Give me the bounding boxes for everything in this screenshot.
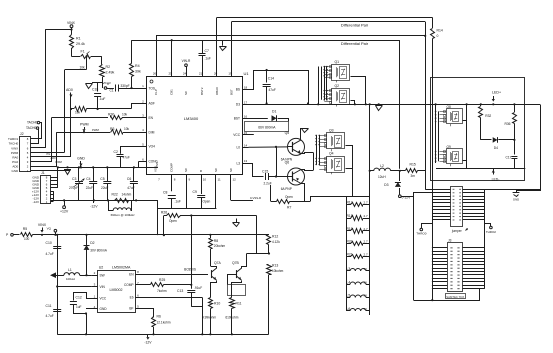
svg-text:GND: GND — [77, 157, 85, 161]
svg-text:Q6: Q6 — [285, 161, 290, 165]
svg-text:47uF: 47uF — [269, 88, 276, 92]
svg-text:2.7: 2.7 — [364, 214, 369, 218]
svg-text:J2: J2 — [20, 132, 24, 136]
svg-text:C18: C18 — [92, 88, 98, 92]
svg-text:VSS: VSS — [154, 166, 158, 172]
svg-text:C11: C11 — [46, 304, 52, 308]
svg-text:.91uF: .91uF — [194, 286, 202, 290]
svg-text:BST: BST — [230, 89, 234, 95]
svg-text:C9: C9 — [193, 190, 197, 194]
svg-text:R5: R5 — [23, 227, 27, 231]
svg-text:GND: GND — [513, 198, 519, 202]
svg-text:-12V: -12V — [90, 204, 98, 208]
svg-text:4.7uF: 4.7uF — [46, 314, 54, 318]
svg-text:Q2: Q2 — [335, 84, 340, 88]
svg-text:1uF: 1uF — [76, 305, 82, 309]
svg-text:2.7: 2.7 — [364, 239, 369, 243]
svg-text:619kohm: 619kohm — [225, 315, 238, 319]
svg-text:COMP: COMP — [169, 163, 173, 172]
svg-text:18: 18 — [244, 85, 248, 89]
svg-text:R13: R13 — [272, 264, 278, 268]
svg-text:30V 800mA: 30V 800mA — [90, 249, 108, 253]
svg-text:11: 11 — [218, 178, 221, 182]
svg-text:PG0: PG0 — [12, 160, 18, 164]
svg-text:19: 19 — [228, 72, 232, 76]
svg-text:VINX: VINX — [11, 146, 18, 150]
svg-text:Q5: Q5 — [285, 131, 290, 135]
svg-text:PWM: PWM — [92, 128, 100, 132]
svg-text:39k: 39k — [135, 70, 141, 74]
svg-text:EN: EN — [149, 116, 154, 120]
svg-text:D4: D4 — [494, 146, 498, 150]
svg-text:12uH: 12uH — [378, 175, 386, 179]
svg-text:C10: C10 — [46, 241, 52, 245]
svg-text:jumper: jumper — [451, 229, 463, 233]
svg-text:EN: EN — [129, 272, 134, 276]
svg-text:14ohm: 14ohm — [122, 192, 132, 196]
svg-text:12.1kohm: 12.1kohm — [157, 321, 171, 325]
svg-text:10k: 10k — [75, 111, 81, 115]
svg-text:LED+: LED+ — [492, 91, 501, 95]
svg-text:Differential Pair: Differential Pair — [341, 41, 369, 46]
svg-text:2.7: 2.7 — [364, 252, 369, 256]
svg-text:AD0: AD0 — [51, 156, 57, 160]
svg-text:THRO2: THRO2 — [486, 230, 496, 234]
svg-text:AD0: AD0 — [66, 88, 73, 92]
svg-text:47uF: 47uF — [123, 156, 130, 160]
svg-text:LM3400: LM3400 — [184, 116, 199, 121]
svg-text:D1: D1 — [272, 110, 276, 114]
svg-text:Open: Open — [169, 219, 177, 223]
svg-text:16: 16 — [244, 114, 248, 118]
svg-text:BST2: BST2 — [200, 87, 204, 95]
svg-text:F1: F1 — [81, 50, 85, 54]
svg-text:25: 25 — [169, 72, 173, 76]
svg-text:CLP: CLP — [154, 89, 158, 95]
svg-text:22uF: 22uF — [86, 186, 93, 190]
svg-text:C17: C17 — [505, 156, 511, 160]
svg-text:26: 26 — [153, 72, 157, 76]
svg-text:2.2uF: 2.2uF — [264, 182, 272, 186]
svg-text:BF: BF — [129, 307, 133, 311]
svg-text:Q3: Q3 — [329, 129, 334, 133]
svg-text:VIN: VIN — [100, 285, 106, 289]
svg-text:20kohm: 20kohm — [214, 244, 226, 248]
svg-text:AD0: AD0 — [12, 165, 18, 169]
svg-text:L2: L2 — [380, 164, 384, 168]
svg-text:U2: U2 — [99, 265, 104, 269]
svg-text:10kohm: 10kohm — [272, 269, 284, 273]
svg-text:10k: 10k — [122, 113, 128, 117]
svg-text:330pF: 330pF — [121, 84, 130, 88]
svg-text:PWM: PWM — [80, 123, 89, 127]
svg-text:7kohm: 7kohm — [157, 289, 167, 293]
svg-text:DIM: DIM — [149, 130, 155, 134]
svg-text:J1: J1 — [41, 171, 45, 175]
svg-text:.1uF: .1uF — [175, 199, 181, 203]
svg-text:D2: D2 — [90, 241, 94, 245]
svg-text:B: B — [199, 170, 203, 172]
svg-text:0-12V: 0-12V — [402, 195, 412, 199]
svg-text:L3: L3 — [236, 161, 240, 165]
svg-text:0-VSS-R: 0-VSS-R — [250, 196, 261, 200]
svg-text:10: 10 — [203, 178, 207, 182]
svg-text:SW: SW — [100, 274, 105, 278]
svg-text:10k: 10k — [124, 127, 130, 131]
svg-text:RA0: RA0 — [12, 155, 18, 159]
svg-text:R36: R36 — [504, 122, 510, 126]
svg-text:D3: D3 — [236, 103, 240, 107]
svg-text:4.99kohm: 4.99kohm — [202, 315, 216, 319]
svg-text:2.7: 2.7 — [364, 200, 369, 204]
svg-text:LM5002: LM5002 — [110, 288, 123, 292]
svg-text:21: 21 — [199, 72, 203, 76]
svg-text:2.49k: 2.49k — [106, 71, 115, 75]
svg-text:PWM: PWM — [11, 151, 19, 155]
svg-text:C1: C1 — [110, 89, 114, 93]
svg-text:C3: C3 — [72, 177, 76, 181]
svg-text:C6: C6 — [127, 177, 131, 181]
svg-text:R14: R14 — [437, 29, 443, 33]
svg-text:C13: C13 — [177, 289, 183, 293]
svg-text:VCC: VCC — [100, 297, 107, 301]
svg-text:D3: D3 — [384, 183, 388, 187]
svg-text:J3: J3 — [448, 239, 452, 243]
svg-text:R1: R1 — [76, 37, 81, 41]
svg-text:DBA0: DBA0 — [215, 87, 219, 95]
svg-text:COMP: COMP — [124, 283, 134, 287]
svg-text:BC850S: BC850S — [184, 268, 196, 272]
svg-text:THRO0: THRO0 — [416, 231, 426, 235]
svg-text:CB1: CB1 — [170, 89, 174, 95]
svg-text:Q4: Q4 — [329, 152, 334, 156]
svg-text:14: 14 — [244, 143, 248, 147]
svg-text:BS: BS — [236, 88, 240, 92]
svg-text:ADF: ADF — [149, 102, 155, 106]
svg-text:VCC: VCC — [233, 133, 240, 137]
svg-text:3m: 3m — [411, 174, 416, 178]
svg-text:24: 24 — [183, 72, 187, 76]
svg-text:VINX: VINX — [38, 223, 47, 227]
svg-text:C8: C8 — [163, 191, 167, 195]
svg-text:R32: R32 — [485, 114, 491, 118]
svg-text:VO4: VO4 — [149, 145, 156, 149]
svg-text:100: 100 — [24, 237, 30, 241]
svg-text:R6: R6 — [157, 315, 161, 319]
svg-text:TACH0: TACH0 — [9, 142, 19, 146]
svg-text:R2: R2 — [106, 65, 111, 69]
svg-text:C5: C5 — [100, 177, 104, 181]
svg-text:10k: 10k — [80, 66, 86, 70]
svg-text:20: 20 — [214, 72, 218, 76]
svg-text:270pF: 270pF — [69, 186, 78, 190]
svg-text:12: 12 — [233, 178, 237, 182]
svg-text:L0: L0 — [236, 146, 240, 150]
svg-text:.1uF: .1uF — [205, 57, 211, 61]
svg-text:100uH: 100uH — [66, 277, 75, 281]
svg-text:+12V: +12V — [60, 210, 69, 214]
svg-text:17: 17 — [244, 100, 248, 104]
svg-text:THRO1: THRO1 — [8, 137, 18, 141]
svg-text:TACH0: TACH0 — [27, 121, 37, 125]
svg-text:TACH0: TACH0 — [26, 126, 36, 130]
svg-text:R4: R4 — [135, 64, 140, 68]
svg-text:R26: R26 — [161, 211, 167, 215]
svg-text:66V 800mA: 66V 800mA — [258, 125, 276, 129]
svg-text:VQ: VQ — [47, 227, 52, 231]
svg-text:-12V: -12V — [144, 341, 152, 345]
svg-text:LM5002MA: LM5002MA — [112, 265, 131, 269]
svg-text:C15: C15 — [262, 170, 268, 174]
svg-text:Q7B: Q7B — [232, 261, 240, 265]
svg-text:C4: C4 — [86, 177, 90, 181]
svg-text:BST: BST — [234, 117, 240, 121]
svg-text:R10: R10 — [214, 302, 220, 306]
svg-text:U1: U1 — [244, 71, 250, 76]
svg-text:GND: GND — [12, 169, 20, 173]
svg-text:4.7uF: 4.7uF — [46, 252, 54, 256]
svg-text:4.12k: 4.12k — [272, 240, 280, 244]
svg-text:Open: Open — [203, 199, 211, 203]
svg-text:R8: R8 — [214, 239, 218, 243]
svg-text:29.4k: 29.4k — [76, 42, 85, 46]
svg-text:L1: L1 — [68, 268, 72, 272]
svg-text:0: 0 — [437, 34, 439, 38]
svg-text:SAMTEC TDX: SAMTEC TDX — [446, 295, 464, 299]
svg-text:6A PNP: 6A PNP — [281, 187, 292, 191]
svg-text:R7: R7 — [287, 206, 291, 210]
svg-text:R11: R11 — [236, 302, 242, 306]
svg-text:VIN-R: VIN-R — [182, 59, 191, 63]
svg-text:PWM: PWM — [56, 160, 62, 164]
svg-text:PG: PG — [47, 152, 51, 156]
svg-text:C2: C2 — [114, 150, 118, 154]
svg-text:R15: R15 — [410, 162, 416, 166]
svg-text:R12: R12 — [272, 235, 278, 239]
svg-text:C14: C14 — [268, 77, 274, 81]
svg-text:C12: C12 — [76, 296, 82, 300]
svg-text:Eb: Eb — [130, 296, 134, 300]
svg-text:R22: R22 — [112, 192, 118, 196]
svg-text:690um @ 100kHz: 690um @ 100kHz — [111, 213, 136, 217]
svg-text:C7: C7 — [205, 49, 209, 53]
svg-text:Q1: Q1 — [335, 60, 340, 64]
svg-text:R25: R25 — [159, 278, 165, 282]
svg-text:GND: GND — [100, 307, 108, 311]
svg-text:Q7A: Q7A — [214, 261, 222, 265]
svg-text:13: 13 — [244, 159, 248, 163]
svg-text:-12V: -12V — [33, 200, 39, 204]
svg-text:Differential Pair: Differential Pair — [341, 22, 369, 27]
svg-text:LED-: LED- — [492, 178, 500, 182]
svg-text:Open: Open — [285, 195, 293, 199]
svg-text:.1uF: .1uF — [99, 97, 105, 101]
